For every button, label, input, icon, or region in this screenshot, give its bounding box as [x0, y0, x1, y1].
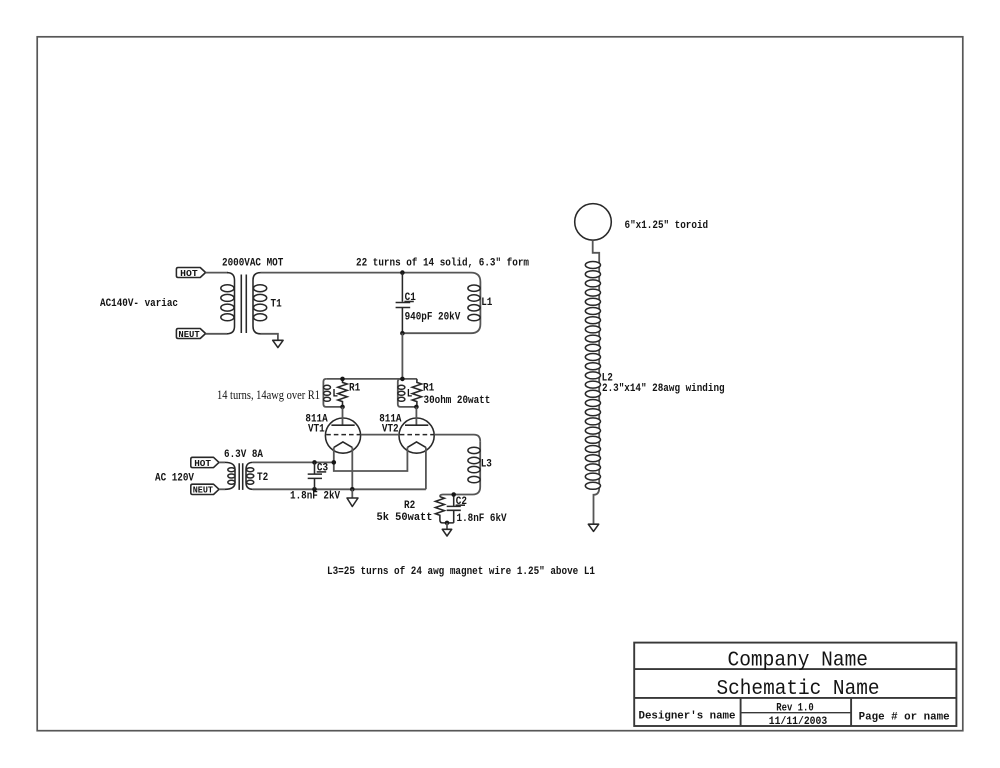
- ground below tubes: [351, 489, 353, 498]
- svg-text:2.3"x14" 28awg winding: 2.3"x14" 28awg winding: [602, 383, 725, 395]
- wire top bus T1 to L1: [261, 272, 472, 274]
- node ground stem tubes: [350, 487, 355, 492]
- port flag HOT (T2): [191, 457, 219, 467]
- svg-text:T2: T2: [257, 472, 268, 484]
- port flag NEUT (T1): [176, 329, 205, 339]
- svg-text:HOT: HOT: [194, 458, 211, 469]
- svg-text:VT1: VT1: [308, 423, 325, 435]
- svg-text:T1: T1: [271, 298, 282, 310]
- T1 core: [241, 275, 246, 334]
- wire HOT to T2: [219, 461, 225, 463]
- svg-text:C1: C1: [405, 292, 416, 304]
- resistor R1 left: [338, 379, 347, 407]
- svg-text:L3=25 turns of 24 awg magnet w: L3=25 turns of 24 awg magnet wire 1.25" …: [327, 566, 595, 578]
- ground below T1: [273, 340, 283, 347]
- wire filament outer leads: [352, 447, 426, 489]
- svg-text:L3: L3: [481, 459, 492, 471]
- svg-text:AC 120V: AC 120V: [155, 473, 195, 485]
- TITLE BLOCK: [634, 643, 956, 726]
- wire toroid to L2: [593, 240, 600, 262]
- svg-text:L: L: [332, 389, 338, 401]
- svg-text:Company Name: Company Name: [728, 650, 869, 673]
- inductor L3: [440, 441, 480, 497]
- svg-text:AC140V- variac: AC140V- variac: [100, 298, 178, 310]
- node top of C1: [400, 270, 405, 275]
- tube VT1 811A envelope: [325, 418, 360, 453]
- port flag HOT (T1): [176, 268, 205, 278]
- resistor R2: [435, 497, 453, 523]
- ground below R2/C2: [446, 523, 448, 529]
- port flag NEUT (T2): [191, 484, 219, 494]
- svg-text:VT2: VT2: [382, 423, 399, 435]
- capacitor C2: [447, 495, 461, 523]
- svg-text:30ohm 20watt: 30ohm 20watt: [424, 395, 491, 407]
- svg-text:HOT: HOT: [180, 268, 198, 279]
- wire grid VT2 to L3: [434, 435, 480, 442]
- arrow end of L2: [588, 524, 598, 531]
- svg-text:Page # or name: Page # or name: [859, 712, 950, 724]
- wire HOT to T1 primary: [206, 272, 228, 274]
- parallel combo left: L branch: [323, 379, 342, 407]
- svg-text:940pF 20kV: 940pF 20kV: [405, 311, 461, 323]
- node left combo bottom: [340, 405, 345, 410]
- wire feed down to grid resistors: [401, 333, 403, 379]
- wire grid tie between tubes: [361, 434, 399, 436]
- svg-text:R1: R1: [423, 383, 434, 395]
- wire T2 bottom bus: [253, 488, 426, 490]
- wire T2 top to VT1 filament: [253, 461, 334, 463]
- node T2 top at C3: [312, 460, 317, 465]
- wire NEUT to T1 primary: [206, 333, 227, 335]
- svg-text:C3: C3: [317, 463, 328, 475]
- parallel combo right: L branch: [398, 379, 417, 407]
- secondary coil L2: [594, 262, 600, 524]
- transformer T2 secondary winding: [246, 462, 253, 489]
- inductor L1: [402, 273, 480, 334]
- svg-text:NEUT: NEUT: [178, 329, 200, 340]
- transformer T1 primary winding: [227, 273, 235, 334]
- node right combo bottom: [414, 405, 419, 410]
- svg-text:11/11/2003: 11/11/2003: [769, 716, 828, 728]
- tube VT1 internals: plate, grid, cathode: [331, 424, 354, 426]
- wire T1 secondary bottom to ground: [261, 334, 278, 341]
- resistor R1 right: [412, 379, 421, 407]
- svg-text:L: L: [407, 389, 413, 401]
- svg-text:L1: L1: [481, 297, 492, 309]
- T2 core: [239, 463, 243, 490]
- node bottom of C1: [400, 331, 405, 336]
- wire filament inner loop VT1-VT2: [334, 447, 408, 471]
- node C3 bottom: [312, 487, 317, 492]
- svg-text:Rev 1.0: Rev 1.0: [776, 703, 813, 715]
- svg-text:1.8nF 6kV: 1.8nF 6kV: [457, 513, 508, 525]
- node left combo top: [340, 377, 345, 382]
- transformer T2 primary winding: [225, 462, 235, 489]
- svg-text:R1: R1: [349, 383, 360, 395]
- tube VT2 internals: [405, 424, 428, 426]
- svg-text:5k 50watt: 5k 50watt: [377, 512, 433, 524]
- capacitor C1: [396, 273, 411, 334]
- wire combos top bus: [326, 378, 417, 380]
- toroid topload: [575, 204, 612, 241]
- wire NEUT to T2: [219, 488, 225, 490]
- transformer T1 secondary winding: [253, 273, 261, 334]
- inductor L (left, over R1): [324, 385, 331, 389]
- svg-text:C2: C2: [456, 496, 467, 508]
- svg-text:14 turns, 14awg over R1: 14 turns, 14awg over R1: [217, 388, 320, 402]
- node R2-C2 bottom: [445, 521, 450, 526]
- node feed: [400, 377, 405, 382]
- svg-text:1.8nF 2kV: 1.8nF 2kV: [290, 490, 341, 502]
- node filament left: [332, 460, 337, 465]
- wire plate stems: [343, 407, 417, 425]
- svg-text:2000VAC MOT: 2000VAC MOT: [222, 257, 284, 269]
- svg-text:22 turns of 14 solid, 6.3" for: 22 turns of 14 solid, 6.3" form: [356, 257, 529, 269]
- T1 primary loops: [221, 285, 234, 292]
- svg-text:NEUT: NEUT: [193, 485, 214, 496]
- tube VT2 811A envelope: [399, 418, 434, 453]
- svg-text:6.3V 8A: 6.3V 8A: [224, 449, 264, 461]
- svg-text:Designer's name: Designer's name: [639, 711, 736, 723]
- capacitor C3: [308, 462, 322, 489]
- svg-text:R2: R2: [404, 500, 415, 512]
- T1 secondary loops: [254, 285, 267, 292]
- svg-text:Schematic Name: Schematic Name: [717, 678, 880, 701]
- node L3 bottom / C2 top: [451, 492, 456, 497]
- inductor L (right, over R1): [398, 385, 405, 389]
- svg-text:6"x1.25" toroid: 6"x1.25" toroid: [625, 220, 709, 232]
